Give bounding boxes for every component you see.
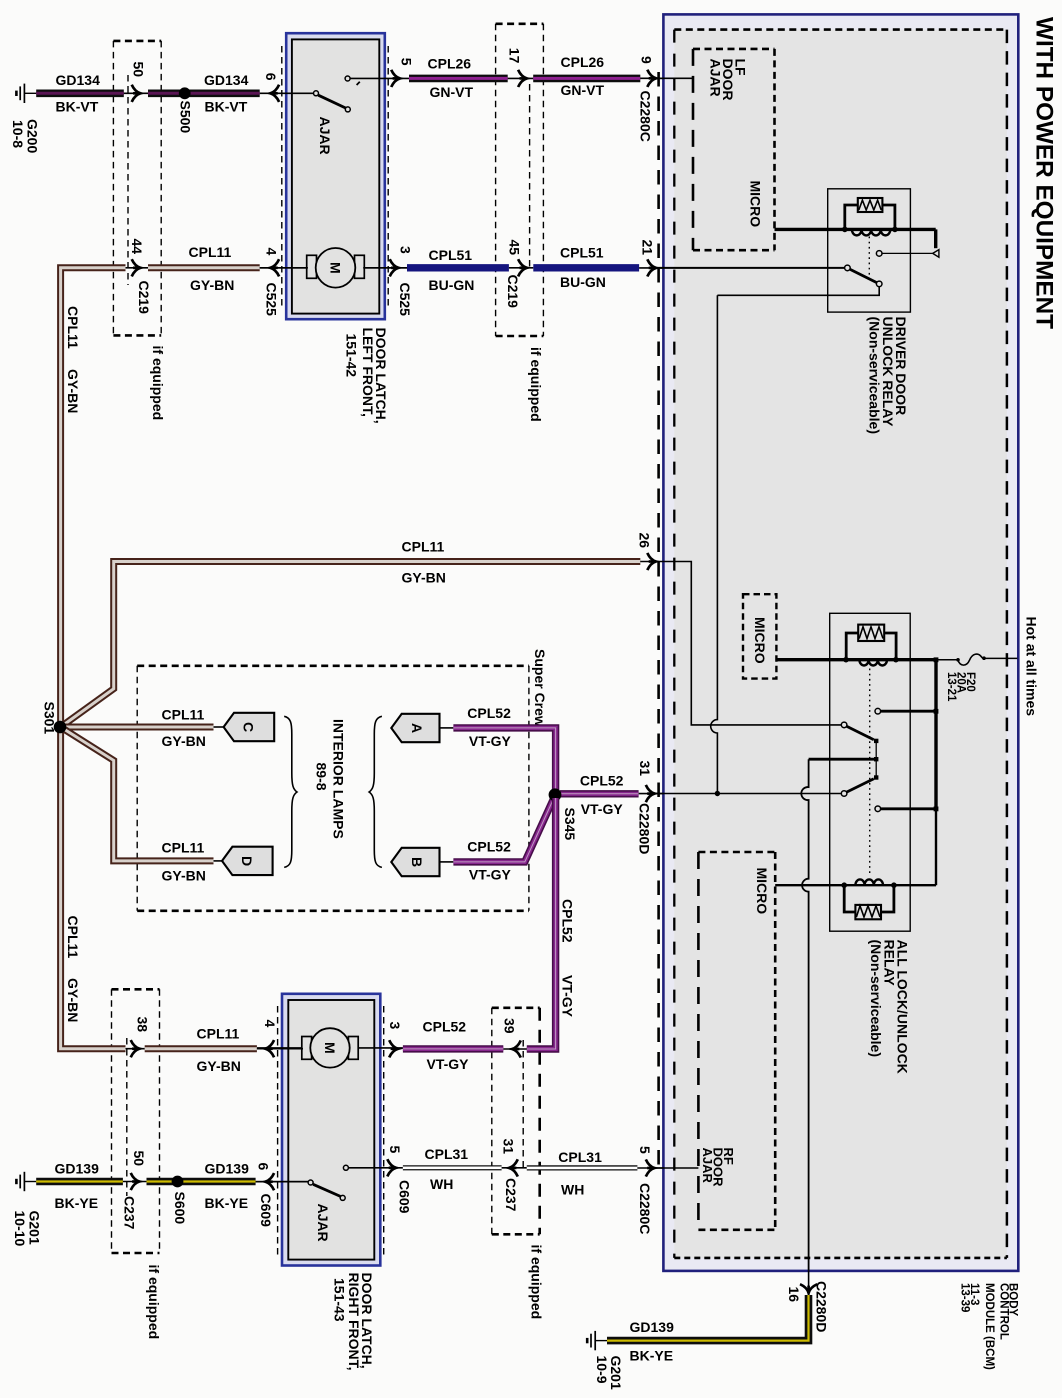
svg-text:10-9: 10-9 (594, 1356, 610, 1384)
svg-text:AJAR: AJAR (708, 59, 724, 97)
relay K2 actuation dotted line (869, 669, 871, 877)
svg-text:GD134: GD134 (56, 72, 101, 88)
pin 3 arrow latch LF (390, 259, 399, 276)
pin 31 arrow BCM (646, 785, 655, 802)
relay K1 blade (850, 269, 877, 282)
wire thin through connector C219 pin 50 (124, 92, 148, 94)
wire coil L1 out to armature (934, 229, 937, 248)
label CPL51 BU-GN (x2) (429, 244, 606, 293)
svg-text:BU-GN: BU-GN (560, 274, 606, 290)
pin 9 arrow BCM (647, 70, 656, 87)
svg-text:CPL52: CPL52 (580, 772, 624, 788)
svg-text:C2280D: C2280D (814, 1281, 830, 1332)
linkage bar K2 (875, 741, 877, 778)
svg-text:if equipped: if equipped (150, 346, 166, 421)
wire CPL11 GY-BN row 38 (126, 1048, 145, 1050)
svg-text:17: 17 (507, 48, 523, 64)
svg-text:GN-VT: GN-VT (561, 82, 605, 98)
pin 45 arrow C219 (518, 259, 527, 276)
connector tag A (391, 714, 439, 742)
svg-text:Super Crew: Super Crew (532, 649, 548, 727)
node LF DOOR AJAR label (708, 59, 749, 101)
svg-text:MODULE (BCM): MODULE (BCM) (983, 1283, 995, 1370)
resistor R2 (relay K2 upper suppression) (846, 625, 896, 658)
connector tag B (391, 848, 439, 876)
wire CPL52 VT-GY vertical S345 down to latch RF pin 3 (527, 798, 556, 1049)
svg-text:CPL52: CPL52 (560, 899, 576, 943)
svg-text:CPL11: CPL11 (162, 706, 205, 722)
connector tag C (224, 713, 275, 741)
wire CPL52 VT-GY from S345 to BCM pin 31 (560, 790, 639, 797)
label CPL52 VT-GY row 39 (423, 1018, 470, 1072)
svg-text:151-42: 151-42 (344, 334, 360, 378)
svg-text:3: 3 (387, 1022, 403, 1030)
svg-text:BK-VT: BK-VT (56, 99, 99, 115)
svg-text:26: 26 (637, 533, 653, 549)
svg-text:CPL11: CPL11 (65, 916, 81, 959)
svg-text:89-8: 89-8 (314, 763, 330, 791)
svg-text:CPL26: CPL26 (561, 54, 605, 70)
pin 6 arrow latch RF (265, 1173, 274, 1190)
label GD139 BK-YE (x2) (55, 1160, 250, 1211)
resistor R3 (relay K2 lower suppression) (844, 887, 894, 919)
svg-text:GD139: GD139 (205, 1160, 250, 1176)
pin 4 arrow latch LF (270, 259, 279, 276)
label relay K1 (867, 317, 910, 434)
ajar switch SW2 (latch RF) (256, 1165, 403, 1200)
svg-text:MICRO: MICRO (752, 617, 768, 664)
wire CPL11 GY-BN vertical left with row 2 corner (61, 268, 126, 723)
pin 26 arrow BCM (647, 553, 656, 570)
svg-text:VT-GY: VT-GY (469, 867, 512, 883)
svg-text:38: 38 (135, 1017, 151, 1033)
pin 5 arrow latch LF (391, 70, 400, 87)
micro module U1 (LF DOOR AJAR) dashed box (693, 49, 775, 250)
node RF DOOR AJAR label (700, 1148, 736, 1188)
wire CPL51 BU-GN segment 1 (363, 267, 407, 269)
svg-text:CPL51: CPL51 (429, 247, 473, 263)
label CPL31 WH (x2) (425, 1146, 603, 1198)
svg-text:13-21: 13-21 (945, 672, 957, 702)
splice S345 (549, 788, 562, 801)
svg-text:BK-YE: BK-YE (205, 1195, 249, 1211)
connector C237 (second, right) dashed box (492, 1008, 540, 1235)
wire GD134 BK-VT segment 2 (148, 90, 260, 98)
contact common K2 blade 2 (841, 791, 847, 797)
svg-text:3: 3 (398, 246, 414, 254)
pin 31 arrow C237 (509, 1159, 518, 1176)
svg-text:45: 45 (507, 240, 523, 256)
wire CPL26 GN-VT segment 2 (533, 75, 640, 83)
coil L2 (859, 660, 887, 666)
wire GD139 BK-YE to ground G201 (10-9) (607, 1295, 809, 1341)
svg-text:10-8: 10-8 (10, 120, 26, 148)
wire CPL11 GY-BN branch to tag D (61, 727, 214, 861)
svg-text:BU-GN: BU-GN (429, 277, 475, 293)
wire GD134 BK-VT segment 1 (36, 90, 124, 98)
svg-text:GY-BN: GY-BN (402, 570, 446, 586)
svg-text:(Non-serviceable): (Non-serviceable) (867, 317, 883, 434)
svg-text:13-39: 13-39 (959, 1283, 971, 1312)
svg-text:if equipped: if equipped (146, 1265, 162, 1340)
svg-text:4: 4 (262, 1020, 278, 1028)
svg-text:if equipped: if equipped (528, 347, 544, 422)
svg-text:GD134: GD134 (204, 72, 249, 88)
wire CPL11 GY-BN row 26 from BCM to S301 (61, 562, 641, 728)
label door latch RF (332, 1273, 376, 1371)
coil L1 (852, 229, 890, 235)
ground G201 (10-10) (16, 1172, 36, 1191)
svg-text:if equipped: if equipped (529, 1245, 545, 1320)
splice S301 (54, 721, 67, 734)
motor M1 (latch LF) (260, 248, 409, 288)
door latch LF component box (286, 33, 385, 319)
splice S500 (179, 87, 191, 99)
svg-text:S301: S301 (42, 702, 58, 735)
connector C219 (second) dashed box (496, 24, 544, 336)
armature pivot triangle K1 (933, 250, 939, 258)
wire CPL52 VT-GY from tag B to S345 (440, 861, 454, 863)
svg-text:CPL31: CPL31 (558, 1149, 602, 1165)
pin 17 arrow C219 (518, 70, 527, 87)
svg-text:C219: C219 (136, 281, 152, 315)
svg-text:CPL31: CPL31 (425, 1146, 469, 1162)
svg-text:CPL11: CPL11 (402, 539, 445, 555)
wire CPL52 VT-GY from tag A to S345 (440, 727, 454, 729)
wire CPL51 BU-GN segment 2 (533, 264, 639, 271)
ground G200 (16, 84, 36, 103)
svg-text:M: M (328, 262, 344, 274)
coil L1 feed wire (775, 228, 936, 231)
svg-text:WH: WH (561, 1182, 584, 1198)
svg-text:BK-VT: BK-VT (205, 99, 248, 115)
micro module U3 (RF DOOR AJAR) dashed box (698, 852, 775, 1230)
connector C609 dashed lines at latch RF (278, 1006, 384, 1258)
coil L2 feed wire from micro U2 (776, 658, 936, 661)
svg-text:C2280C: C2280C (637, 1183, 653, 1234)
svg-text:GY-BN: GY-BN (162, 733, 206, 749)
BCM body control module outer box (663, 14, 1018, 1271)
junction dots coil L2 (843, 657, 849, 663)
contact common K2 blade 1 (841, 722, 847, 728)
label INTERIOR LAMPS 89-8 (314, 719, 347, 839)
ground G201 (10-9) (587, 1331, 607, 1350)
svg-text:S345: S345 (562, 808, 578, 841)
svg-text:MICRO: MICRO (748, 181, 764, 228)
svg-text:C219: C219 (505, 275, 521, 309)
wire CPL31 WH segment 2 (527, 1165, 638, 1170)
svg-text:C525: C525 (397, 283, 413, 317)
svg-text:50: 50 (131, 62, 147, 78)
svg-text:GD139: GD139 (55, 1160, 100, 1176)
connector C2280 boundary dashed line at BCM left edge (657, 72, 660, 1172)
wire pin 31 to relay K2 common 2 (656, 793, 841, 795)
relay K2 ALL LOCK/UNLOCK RELAY box (830, 613, 911, 931)
wire pin 5 to micro U3 (656, 1167, 698, 1169)
svg-text:10-10: 10-10 (12, 1211, 28, 1247)
svg-text:BK-YE: BK-YE (630, 1348, 674, 1364)
brace left (284, 716, 297, 867)
svg-text:CPL52: CPL52 (423, 1018, 467, 1034)
brace right (369, 716, 382, 867)
label CPL11 GY-BN row 2 (189, 244, 235, 293)
wire CPL11 GY-BN segment to latch LF pin 4 (148, 264, 260, 271)
svg-text:AJAR: AJAR (700, 1148, 715, 1184)
pin 6 arrow latch LF (270, 85, 279, 102)
relay K1 actuation dotted line (868, 237, 870, 278)
svg-text:CPL52: CPL52 (467, 705, 511, 721)
svg-text:C237: C237 (122, 1196, 138, 1230)
label CPL52 VT-GY vertical (560, 899, 576, 1018)
svg-text:31: 31 (637, 761, 653, 777)
relay K1 DRIVER DOOR UNLOCK RELAY box (828, 189, 911, 312)
wire CPL11 GY-BN vertical below S301 (61, 723, 126, 1049)
wire pin 9 to micro U1 (656, 77, 693, 79)
wire GD139 BK-YE segment 1 (36, 1178, 123, 1186)
resistor R1 (relay K1 suppression) (845, 198, 895, 228)
label CPL26 GN-VT (x2) (428, 54, 605, 100)
svg-text:9: 9 (639, 56, 655, 64)
svg-text:CPL11: CPL11 (65, 306, 81, 349)
svg-text:S600: S600 (172, 1192, 188, 1225)
svg-text:31: 31 (501, 1139, 517, 1155)
pin 39 arrow C237 (512, 1040, 521, 1057)
label CPL11 GY-BN row 26 (402, 539, 446, 586)
wire B+ bus vertical (934, 660, 937, 809)
coil L3 feed wire from micro U3 (775, 884, 936, 886)
interior lamps dashed box (137, 666, 529, 911)
svg-text:CPL52: CPL52 (467, 838, 511, 854)
svg-text:21: 21 (640, 240, 656, 256)
svg-text:WH: WH (430, 1176, 453, 1192)
svg-text:C525: C525 (264, 283, 280, 317)
connector C525 dashed lines at latch LF (282, 46, 388, 310)
svg-text:M: M (322, 1042, 338, 1054)
motor M2 (latch RF) (256, 1028, 403, 1067)
label CPL11 GY-BN vertical lower (65, 916, 81, 1023)
svg-text:CPL11: CPL11 (189, 244, 232, 260)
svg-text:CPL51: CPL51 (560, 244, 604, 260)
connector C219 (first, left) dashed box (113, 41, 161, 336)
svg-text:C609: C609 (258, 1194, 274, 1228)
label BCM bottom right (959, 1283, 1019, 1370)
svg-text:50: 50 (131, 1151, 147, 1167)
wire CPL11 GY-BN branch to tag C (64, 724, 214, 731)
pin 38 arrow C237 (131, 1040, 140, 1057)
pin 3 arrow latch RF (389, 1040, 398, 1057)
connector tag D (222, 847, 273, 875)
svg-text:GY-BN: GY-BN (190, 277, 234, 293)
svg-text:5: 5 (387, 1146, 403, 1154)
label GD139 BK-YE bottom (630, 1319, 675, 1364)
splice S600 (172, 1176, 184, 1188)
svg-text:INTERIOR LAMPS: INTERIOR LAMPS (331, 719, 347, 839)
center feed contact square K2 (874, 757, 878, 761)
micro module U2 dashed box (743, 594, 776, 678)
svg-text:BK-YE: BK-YE (55, 1195, 99, 1211)
svg-text:VT-GY: VT-GY (560, 975, 576, 1018)
wire center feed K2 to pin 16 (809, 758, 875, 761)
junction on pin 31 wire (715, 791, 720, 796)
svg-text:CPL11: CPL11 (162, 839, 205, 855)
wire CPL26 GN-VT segment 1 (409, 75, 508, 83)
svg-text:GN-VT: GN-VT (430, 84, 474, 100)
svg-text:C2280C: C2280C (638, 91, 654, 142)
svg-text:C237: C237 (503, 1178, 519, 1212)
svg-text:AJAR: AJAR (317, 117, 333, 155)
pin 16 arrow BCM bottom (800, 1284, 817, 1293)
svg-text:CPL26: CPL26 (428, 56, 472, 72)
coil L3 (855, 879, 883, 885)
contact NO K1 (876, 251, 882, 257)
contact NO K2 upper (875, 708, 881, 714)
pin 50 arrow C219 (132, 85, 141, 102)
relay K2 blade 1 (847, 726, 874, 740)
svg-text:VT-GY: VT-GY (581, 801, 624, 817)
svg-text:6: 6 (263, 73, 279, 81)
relay K2 blade 2 (847, 779, 874, 792)
svg-text:S500: S500 (177, 101, 193, 134)
label CPL11 GY-BN vertical upper (65, 306, 81, 413)
contact common K1 (845, 265, 851, 271)
junction dots coil L3 (841, 882, 847, 888)
svg-text:WITH POWER EQUIPMENT: WITH POWER EQUIPMENT (1031, 17, 1058, 329)
wire relay K1 output down to pin 31 net (hops over horizontal wire) (717, 287, 879, 296)
pin 5 arrow BCM (646, 1159, 655, 1176)
wire pin 16 below BCM (808, 1271, 810, 1292)
pin 44 arrow C219 (132, 259, 141, 276)
junction dots coil L1 (842, 227, 848, 233)
svg-text:6: 6 (256, 1163, 272, 1171)
svg-text:4: 4 (264, 248, 280, 256)
pin 50 arrow C237 (131, 1173, 140, 1190)
door latch RF component box (282, 994, 380, 1266)
wire pin 21 to relay K1 common (656, 267, 845, 269)
svg-text:44: 44 (129, 239, 145, 255)
junction square B+ bus top (934, 657, 939, 662)
pin 4 arrow latch RF (265, 1040, 274, 1057)
pin 5 arrow latch RF (387, 1159, 396, 1176)
wire GD139 BK-YE segment 2 (147, 1178, 256, 1186)
svg-text:C2280D: C2280D (637, 803, 653, 854)
connector C237 (first, left) dashed box (112, 989, 160, 1253)
svg-text:A: A (409, 723, 425, 733)
svg-text:GY-BN: GY-BN (197, 1058, 241, 1074)
label fuse F20 20A (945, 672, 976, 702)
svg-text:(Non-serviceable): (Non-serviceable) (868, 940, 884, 1057)
svg-text:GY-BN: GY-BN (65, 978, 81, 1022)
label GD134 BK-VT (x2) (56, 72, 249, 115)
wire pin 26 to relay K2 common 1 (656, 562, 841, 725)
svg-text:B: B (409, 857, 425, 867)
svg-text:AJAR: AJAR (315, 1204, 331, 1242)
svg-text:CPL11: CPL11 (197, 1026, 240, 1042)
svg-text:LEFT FRONT,: LEFT FRONT, (360, 328, 376, 417)
label door latch LF (344, 328, 390, 424)
svg-text:CONTROL: CONTROL (998, 1283, 1010, 1340)
svg-text:151-43: 151-43 (332, 1278, 348, 1322)
wire CPL31 WH segment 1 (403, 1165, 502, 1170)
svg-text:MICRO: MICRO (754, 868, 770, 915)
svg-text:VT-GY: VT-GY (427, 1056, 470, 1072)
svg-text:GY-BN: GY-BN (162, 868, 206, 884)
svg-text:C609: C609 (397, 1180, 413, 1214)
pin 21 arrow BCM (647, 259, 656, 276)
svg-text:C: C (241, 722, 257, 732)
svg-text:5: 5 (637, 1146, 653, 1154)
svg-text:D: D (239, 856, 255, 866)
svg-text:GY-BN: GY-BN (65, 369, 81, 413)
svg-text:16: 16 (786, 1287, 802, 1303)
label relay K2 (868, 940, 911, 1074)
svg-text:Hot at all times: Hot at all times (1023, 617, 1039, 717)
svg-text:5: 5 (399, 58, 415, 66)
fuse F20 (936, 654, 1017, 665)
svg-text:VT-GY: VT-GY (469, 733, 512, 749)
ajar switch SW1 (latch LF) (260, 76, 409, 112)
svg-text:39: 39 (502, 1018, 518, 1034)
contact NO K2 lower (875, 806, 881, 812)
svg-text:GD139: GD139 (630, 1319, 675, 1335)
